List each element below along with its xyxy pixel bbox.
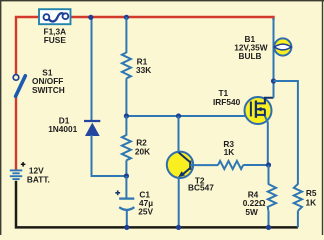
frame border left — [0, 0, 1, 235]
resistor R2 20K zigzag — [122, 116, 131, 176]
svg-text:BULB: BULB — [238, 51, 261, 61]
capacitor C1 positive plate wire — [125, 176, 127, 199]
node: dot R4 on ground rail — [266, 225, 271, 230]
wire: T2 base to R3 — [190, 164, 218, 166]
frame border top — [0, 0, 324, 1]
label T1 IRF540 — [213, 88, 241, 107]
node: dot on red rail at D1 branch — [88, 15, 93, 20]
mosfet T1 IRF540 — [245, 97, 274, 124]
resistor R4 0.22ohm zigzag — [268, 184, 276, 211]
bulb B1 — [274, 38, 291, 55]
svg-text:FUSE: FUSE — [44, 35, 67, 45]
wire: R5 bottom to ground rail end — [297, 211, 299, 228]
label S1 ON/OFF SWITCH — [32, 68, 65, 95]
node: dot on red rail at R1 branch — [124, 15, 129, 20]
capacitor C1 plates — [119, 199, 134, 210]
wire: R1 bottom to gate node — [125, 78, 127, 116]
wire: T2 collector up to gate line — [178, 116, 180, 152]
svg-text:33K: 33K — [136, 65, 151, 75]
svg-text:SWITCH: SWITCH — [32, 85, 65, 95]
resistor R1 33K zigzag — [122, 53, 131, 79]
svg-text:25V: 25V — [138, 206, 153, 216]
wire: top +12V red rail, left segment to fuse — [16, 17, 40, 74]
wire: T1 source down to R3/R4 node — [265, 116, 268, 165]
svg-text:1N4001: 1N4001 — [48, 124, 77, 134]
label R2 20K — [135, 137, 150, 156]
node: dot R3/R4/source junction — [266, 162, 271, 167]
wire: R3 to T1 source node — [243, 164, 268, 166]
wire: C1 negative to ground rail — [126, 211, 128, 228]
resistor R5 1K zigzag — [294, 184, 302, 211]
wire: D1 anode down and right to C1 node — [92, 135, 127, 176]
wire: left red rail from switch to battery — [15, 97, 17, 170]
wire: R4 bottom to ground rail — [268, 211, 270, 228]
svg-text:BC547: BC547 — [188, 183, 214, 193]
wire: battery negative black to ground rail — [16, 181, 298, 228]
label C1 47u 25V — [138, 190, 153, 217]
label D1 1N4001 — [48, 116, 77, 134]
battery BATT.12V — [10, 170, 22, 179]
transistor T2 BC547 — [167, 152, 193, 178]
label R3 1K — [223, 139, 234, 157]
battery plus sign — [21, 162, 26, 167]
wire: gate line to T1 — [126, 115, 250, 117]
resistor R3 1K zigzag — [218, 161, 243, 169]
diode D1 (1N4001), cathode bar — [84, 120, 100, 122]
label R4 0.22ohm 5W — [243, 190, 266, 217]
switch S1 — [13, 75, 25, 97]
label R5 1K — [305, 188, 316, 207]
svg-text:20K: 20K — [135, 147, 150, 157]
wire: T2 emitter down to ground rail — [178, 177, 180, 228]
svg-text:BATT.: BATT. — [27, 175, 50, 185]
node: dot T2 emitter on ground rail — [176, 225, 181, 230]
wire: red rail to R1 top — [125, 17, 127, 53]
capacitor C1 plus sign — [115, 190, 120, 195]
wire: node to R4 top — [268, 165, 270, 185]
svg-text:IRF540: IRF540 — [213, 97, 241, 107]
label 12V BATT. — [27, 166, 50, 185]
frame border right — [322, 0, 323, 235]
svg-text:1K: 1K — [305, 198, 316, 208]
svg-text:1K: 1K — [224, 147, 235, 157]
wire: top red rail from fuse to right corner — [70, 17, 274, 20]
wire: D1 branch vertical from red rail — [91, 17, 93, 120]
diode D1 triangle — [85, 123, 100, 136]
wire: jog from drain node right to R5 column — [274, 81, 298, 185]
label F1,3A FUSE — [44, 26, 67, 45]
label T2 BC547 — [188, 175, 214, 192]
svg-text:5W: 5W — [245, 207, 258, 217]
wire: drain column from red rail corner down to T1 — [273, 18, 275, 98]
label B1 12V,35W BULB — [234, 34, 268, 61]
fuse F1 body — [39, 9, 71, 24]
node: dot R2/C1/D1 junction — [124, 173, 129, 178]
node: dot gate line / T2 collector junction — [176, 113, 181, 118]
node: dot gate/R1/R2 junction — [124, 113, 129, 118]
label R1 33K — [136, 57, 151, 75]
node: dot drain / R5 branch — [271, 78, 276, 83]
node: dot C1 on ground rail — [124, 225, 129, 230]
